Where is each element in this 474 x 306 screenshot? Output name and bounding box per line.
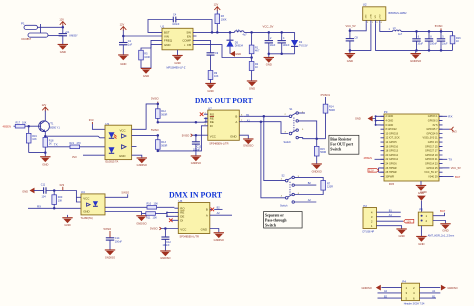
capacitor C14 [106, 237, 123, 249]
power port 12V at VIN [120, 22, 127, 30]
power port VCC_5V input [346, 24, 356, 31]
svg-text:GNDISO: GNDISO [137, 163, 147, 167]
wire SW output rail [197, 31, 235, 33]
svg-text:Pass-through: Pass-through [265, 219, 287, 223]
svg-text:GND: GND [418, 242, 424, 246]
wire gnd port to C11 [34, 190, 44, 192]
svg-text:10K: 10K [22, 121, 27, 124]
svg-text:GND: GND [164, 43, 170, 47]
svg-text:GNDISO: GNDISO [160, 256, 170, 260]
resistor R10 series RO [147, 203, 159, 209]
capacitor C13 bypass [192, 135, 202, 155]
wire RX line to opto U4 [28, 207, 81, 209]
pin numbers U2 [367, 22, 383, 24]
wire P5 bottom to gnd [420, 226, 422, 236]
svg-text:5VISO: 5VISO [435, 24, 443, 28]
svg-text:GNDISO: GNDISO [243, 144, 253, 148]
connector P3 GPIO header body [384, 110, 439, 186]
node base divider [27, 125, 30, 128]
svg-text:1K: 1K [456, 40, 459, 43]
svg-text:GND: GND [119, 154, 125, 158]
wire bias mid rail [317, 138, 326, 140]
connector P5 battery header body [418, 208, 454, 238]
svg-text:470: 470 [77, 142, 82, 145]
capacitor C17 [437, 31, 448, 50]
svg-text:Bias Resistor: Bias Resistor [330, 138, 352, 142]
wire S2 throw4 with label A2 [294, 201, 316, 203]
svg-text:S8050 Y1: S8050 Y1 [49, 127, 61, 130]
svg-text:10K: 10K [154, 203, 159, 206]
svg-text:DC0867: DC0867 [22, 37, 32, 41]
resistor R15 bias pulldown [314, 139, 326, 164]
wire P5 pin1 to BAT [433, 213, 445, 216]
ground port GND at C11 [22, 188, 34, 194]
svg-text:GPIO17 15: GPIO17 15 [425, 145, 438, 148]
ground GNDISO right of U7 [243, 139, 253, 148]
svg-text:26 HPWR: 26 HPWR [386, 167, 397, 170]
pin number 1 8 texts U7 [205, 112, 244, 126]
svg-text:For OUT port: For OUT port [330, 143, 354, 147]
wire 5VISO rail [401, 30, 453, 32]
svg-text:5VISO: 5VISO [182, 133, 190, 137]
svg-text:VCC: VCC [83, 197, 89, 201]
svg-text:Switch: Switch [265, 224, 277, 228]
svg-text:DMX OUT PORT: DMX OUT PORT [195, 96, 253, 105]
ground below R5 [141, 68, 151, 78]
op-amp U1 buck regulator MP1584 body [161, 24, 194, 69]
wire U1 GND pin down [141, 45, 159, 68]
ground port GND above P5 [417, 190, 427, 201]
svg-text:Switch: Switch [280, 205, 288, 208]
pin name texts P3 left column [386, 115, 401, 178]
svg-text:10K: 10K [153, 217, 158, 220]
no-connect X at U6 B [211, 208, 215, 212]
wire gnd to P5 top [420, 201, 422, 213]
svg-text:GNDISO: GNDISO [410, 59, 422, 63]
svg-text:GND: GND [398, 234, 404, 238]
svg-text:24 GPIO6: 24 GPIO6 [386, 163, 398, 166]
svg-text:2 GND: 2 GND [386, 115, 394, 118]
pin stub opto out3 [132, 146, 137, 148]
svg-text:-VO: -VO [375, 15, 377, 19]
capacitor C15 [412, 31, 423, 50]
wire P1 pin2 to gnd node [48, 35, 63, 37]
svg-text:GND: GND [83, 209, 89, 213]
wire U7 RE/DE tie [205, 118, 207, 122]
ground GNDISO below [410, 50, 422, 62]
op-amp U7 RS485 driver body [208, 107, 240, 146]
wire P4 row3 left with label B2 [378, 297, 402, 299]
svg-text:12V: 12V [406, 220, 411, 224]
svg-text:GPIO25 7: GPIO25 7 [426, 128, 438, 131]
ground port GND left of P3 [355, 116, 373, 122]
svg-text:DI: DI [210, 124, 213, 128]
svg-text:GND: GND [249, 87, 255, 91]
svg-text:RX: RX [448, 114, 452, 118]
svg-text:5VISO: 5VISO [104, 227, 112, 231]
svg-text:COMP: COMP [182, 38, 191, 42]
svg-text:VT1: VT1 [49, 122, 54, 125]
ground below C8 [345, 54, 355, 63]
svg-text:10K: 10K [58, 200, 63, 203]
svg-text:120R: 120R [327, 186, 333, 189]
wire 3V3 to opto pin4 [83, 154, 105, 156]
svg-text:10uF: 10uF [417, 42, 423, 45]
svg-text:R10: R10 [147, 203, 152, 206]
svg-text:EL0815 TA: EL0815 TA [106, 160, 119, 164]
resistor R17 base series [15, 121, 26, 128]
svg-text:GPIO4 25: GPIO4 25 [426, 167, 438, 170]
connector P2 DTU38 body [363, 204, 377, 234]
wire U6 RE/DE tie [167, 212, 174, 216]
wire collector up [44, 111, 46, 121]
svg-text:5VISO: 5VISO [122, 191, 130, 195]
diode D2 TVS [291, 32, 308, 53]
wire 12V to VIN rail [122, 30, 124, 42]
wire P4 row3 right with label B1 [420, 297, 437, 299]
capacitor C9 comp network [197, 40, 219, 55]
svg-text:U4: U4 [81, 190, 85, 194]
svg-text:A: A [206, 213, 208, 217]
capacitor C11 [41, 183, 46, 198]
svg-text:DNS34: DNS34 [235, 45, 244, 48]
ground GNDISO at U4 out low [136, 216, 146, 226]
svg-text:GND: GND [64, 223, 70, 227]
wire P4 row1 left [381, 287, 401, 289]
svg-text:GND: GND [174, 61, 180, 65]
svg-text:100nF: 100nF [430, 42, 438, 45]
wire P3 TX row right [439, 158, 447, 160]
svg-text:B: B [235, 114, 237, 118]
svg-text:AMT_HDR_2x1_2.5mm: AMT_HDR_2x1_2.5mm [428, 235, 455, 238]
power port 12V [59, 18, 65, 26]
svg-text:GND: GND [207, 89, 213, 93]
svg-text:12V: 12V [59, 18, 64, 22]
svg-text:GPIO27 17: GPIO27 17 [425, 150, 438, 153]
svg-text:12V: 12V [369, 169, 374, 173]
wire 485EN to base [14, 125, 16, 127]
ground below transistor [40, 153, 50, 167]
svg-text:100nF: 100nF [172, 23, 180, 26]
ground below R2 [247, 81, 257, 91]
power port 12V boxed at P2 [404, 219, 414, 223]
wire opto out2 to pullup2 node [132, 134, 158, 136]
wire emitter down to R18 [44, 132, 46, 138]
wire P4 row1 right [420, 287, 441, 289]
resistor R1 feedback top [249, 32, 260, 53]
svg-text:4u7: 4u7 [398, 33, 403, 36]
resistor R3 [215, 11, 227, 33]
wire B1 to switch S1 pole1 [244, 115, 289, 117]
resistor R18 emitter [43, 138, 54, 153]
wire C11 to RX node [46, 190, 63, 192]
svg-text:1K: 1K [255, 66, 258, 69]
svg-text:VCC_5V: VCC_5V [263, 25, 274, 29]
op-amp U3 optocoupler EL0815 body [105, 122, 132, 164]
svg-text:3V3: 3V3 [72, 155, 77, 159]
svg-text:GNDISO: GNDISO [136, 221, 146, 225]
pin stubs U1 left [159, 32, 163, 44]
svg-text:GND: GND [143, 74, 149, 78]
capacitor C3 output [265, 32, 276, 53]
svg-text:12V: 12V [42, 103, 47, 107]
svg-text:V030_3V3 11: V030_3V3 11 [423, 137, 439, 140]
svg-text:RX: RX [37, 204, 41, 208]
svg-text:TX: TX [54, 143, 58, 147]
wire B1 down to S2 [264, 116, 285, 180]
svg-text:V040 29: V040 29 [428, 175, 438, 178]
transistor Q1 VT1 S8050 [39, 121, 61, 132]
svg-text:GND: GND [235, 52, 241, 56]
svg-text:12V: 12V [120, 22, 125, 26]
wire U4 out to R10 and U6 RO [105, 206, 147, 208]
svg-text:GND: GND [22, 189, 28, 193]
ground below output caps [264, 54, 274, 67]
wire output cap ground rail [269, 53, 295, 55]
svg-text:104: 104 [42, 196, 47, 199]
svg-text:3V3: 3V3 [59, 183, 64, 187]
ground below C1 [58, 44, 68, 54]
wire P3 ground bus left [372, 116, 384, 125]
wire U2 -VIN to gnd [350, 24, 371, 51]
svg-text:DMX IN PORT: DMX IN PORT [169, 191, 223, 200]
capacitor C16 [425, 31, 438, 50]
node R5 top [53, 189, 56, 192]
node SW bootstrap [211, 31, 214, 34]
wire S2 throw2 with label B2 [294, 184, 316, 186]
svg-text:SP3485EN-L/TR: SP3485EN-L/TR [209, 141, 228, 145]
pin stubs U1 right [193, 32, 197, 44]
svg-text:5VISO: 5VISO [151, 128, 159, 132]
wire P4 row2 right with label A1 [420, 292, 441, 294]
svg-text:DTU38 4P: DTU38 4P [363, 231, 375, 234]
wire 5VISO to U7 VCC pin [192, 134, 207, 136]
node emitter to opto [44, 135, 47, 138]
svg-text:100nF: 100nF [163, 244, 171, 247]
pin stub U4 left1 [77, 196, 82, 198]
switch S2 [280, 175, 300, 208]
capacitor C8 input [346, 36, 359, 53]
ground right of P5 [440, 224, 450, 233]
power port 5VISO pullup2 [151, 128, 159, 132]
svg-text:PVISO1: PVISO1 [321, 93, 331, 97]
svg-text:VCC: VCC [210, 134, 216, 138]
power port 3V3 at opto pin1 [89, 118, 94, 124]
node DI net [157, 150, 160, 153]
svg-text:MP1584EN-LF-Z: MP1584EN-LF-Z [167, 66, 186, 69]
annotation box bias resistor note [329, 135, 359, 154]
pin name texts P3 right column [423, 115, 439, 178]
svg-text:10uF: 10uF [442, 42, 448, 45]
svg-text:VCC_5V: VCC_5V [346, 24, 356, 28]
svg-text:100nF: 100nF [283, 44, 291, 47]
pin stubs P3 right all rows [439, 116, 443, 176]
svg-text:GPIO3 1: GPIO3 1 [428, 115, 438, 118]
svg-text:GND: GND [420, 190, 426, 194]
power port 3V3 at opto pin4 [72, 155, 77, 159]
no-connect X at U7 RO [200, 112, 204, 116]
power port 5VISO at U6 VCC [150, 227, 161, 231]
svg-text:U2: U2 [363, 3, 367, 7]
wire S2 throw3 to R7 bottom [294, 190, 323, 194]
wire U4 right pin1 to 5VISO [105, 194, 128, 197]
svg-text:DI: DI [180, 218, 183, 222]
svg-text:R17: R17 [16, 121, 21, 124]
wire P5 pin2 to gnd [433, 221, 446, 224]
ground GNDISO below C13 [191, 156, 201, 165]
pin stubs U6 left [171, 208, 178, 220]
svg-text:GNDISO: GNDISO [312, 170, 322, 174]
svg-text:20 GPIO12: 20 GPIO12 [386, 154, 399, 157]
svg-text:C11: C11 [41, 183, 46, 186]
annotation box separate or passthrough [264, 212, 303, 229]
inductor L2 [235, 29, 248, 37]
capacitor C4 bootstrap [172, 14, 180, 26]
svg-text:Separate or: Separate or [265, 214, 284, 218]
diode D5 SS34 [226, 32, 243, 53]
wire S1 throw2 to bias [298, 121, 316, 139]
ground port GNDISO left of P4 [362, 285, 381, 291]
svg-text:10uF: 10uF [270, 44, 276, 47]
wire P2 pin1 to gnd [377, 226, 402, 229]
svg-text:4u7: 4u7 [243, 34, 248, 37]
svg-text:GND: GND [266, 63, 272, 67]
wire 5V output rail [244, 31, 295, 33]
svg-text:GNDISO: GNDISO [447, 286, 457, 290]
ground port GNDISO right of P4 [441, 285, 458, 291]
ground GNDISO below C12 [160, 251, 170, 260]
svg-text:R21: R21 [70, 142, 75, 145]
wire P1 pin1 to node [38, 26, 63, 28]
svg-text:3V3: 3V3 [89, 118, 94, 122]
wire P3 BAT row right [439, 176, 454, 178]
wire pullup2 to U7 DI [158, 126, 204, 151]
svg-text:GND: GND [201, 228, 207, 232]
svg-text:560R: 560R [320, 151, 326, 154]
power port 3V3 right of P3 [450, 127, 458, 134]
power port 5VISO at U7 VCC [182, 133, 193, 137]
wire U2 +VO to inductor [380, 24, 393, 32]
svg-text:A: A [235, 120, 237, 124]
svg-text:KM05Y: KM05Y [70, 35, 79, 38]
svg-text:485EN: 485EN [3, 124, 12, 128]
wire P3 RX row right [439, 115, 447, 117]
inductor L3 [389, 27, 403, 36]
svg-text:Header 3X2H 7.54: Header 3X2H 7.54 [404, 303, 425, 306]
power port 5VISO [435, 24, 443, 31]
svg-text:GND: GND [230, 134, 236, 138]
resistor R7 terminator [321, 181, 333, 191]
power port 12V at collector [42, 103, 49, 111]
svg-text:FB: FB [187, 43, 191, 47]
wire VIN to U1 [123, 35, 158, 37]
svg-text:TVS.5V: TVS.5V [299, 45, 308, 48]
svg-text:GND: GND [347, 59, 353, 63]
svg-text:FREQ: FREQ [164, 38, 173, 42]
wire FB divider node [197, 45, 252, 62]
wire 12V to C1 [62, 25, 64, 33]
svg-text:B0505LS-1WR2: B0505LS-1WR2 [389, 12, 408, 15]
svg-text:GNDISO: GNDISO [191, 161, 201, 165]
ground pad pin9 wire [177, 50, 179, 55]
ground below P2 wire [396, 229, 406, 238]
wire 3V3 to opto pin1 [92, 124, 105, 129]
wire U7 GND pin to GNDISO [239, 135, 248, 138]
ground below U1 [172, 55, 182, 65]
power port 12V above R3 [214, 3, 221, 11]
resistor R16 iso load [450, 31, 461, 50]
svg-text:GND: GND [355, 117, 361, 121]
svg-text:485EN: 485EN [364, 156, 373, 160]
wire A1 to switch S1 pole2 [244, 122, 288, 134]
svg-text:560R: 560R [161, 114, 167, 117]
resistor R5 freq set [139, 40, 159, 68]
svg-text:GND: GND [60, 50, 66, 54]
ground port left-facing at D5 [230, 51, 241, 57]
svg-text:P1: P1 [21, 22, 25, 26]
wire opto GND to GNDISO [132, 155, 142, 157]
ground below C2 [118, 55, 128, 66]
svg-text:100nF: 100nF [115, 241, 123, 244]
power port 12V boxed at P3 [368, 169, 379, 173]
svg-text:14 GPIO5: 14 GPIO5 [386, 141, 398, 144]
svg-text:10 GPIO19: 10 GPIO19 [386, 132, 399, 135]
wire S1 throw4 to bias rail [298, 138, 316, 139]
wire C2 to ground [122, 45, 124, 55]
svg-text:560R: 560R [329, 109, 335, 112]
connector P1 (DC barrel jack) [21, 22, 48, 41]
svg-text:GPIO15 21: GPIO15 21 [425, 158, 438, 161]
node iso rail joints [415, 30, 418, 33]
pin stubs P3 left all rows [381, 116, 385, 176]
resistor R13 pullup [156, 135, 168, 151]
node D5 cathode [229, 31, 232, 34]
capacitor C5 output [278, 32, 291, 53]
svg-text:BAT: BAT [455, 175, 461, 179]
pin stubs U2 bottom [366, 20, 380, 23]
svg-text:TL280(TA): TL280(TA) [81, 216, 93, 220]
svg-text:18 GPIO13: 18 GPIO13 [386, 150, 399, 153]
resistor R9 comp network [208, 55, 219, 83]
node at P1/C1 junction [62, 26, 65, 29]
pin stubs U6 right [210, 209, 212, 215]
svg-text:GND: GND [442, 229, 448, 233]
no-connect X at U6 DI [169, 219, 173, 223]
wire U6 GND pin to GNDISO [210, 229, 219, 233]
svg-text:GND: GND [42, 162, 48, 166]
svg-text:100nF: 100nF [193, 148, 201, 151]
ground below P5 [416, 236, 426, 246]
svg-text:100K: 100K [144, 56, 150, 59]
svg-text:8 GPIO22: 8 GPIO22 [386, 128, 398, 131]
svg-text:VCC: VCC [120, 128, 126, 132]
svg-text:1K: 1K [49, 143, 52, 146]
svg-text:560R: 560R [161, 145, 167, 148]
node 5VISO pullup1 [157, 103, 160, 106]
resistor R12 pullup [156, 104, 168, 122]
wire BST bootstrap loop [148, 20, 212, 33]
svg-text:1uF: 1uF [128, 43, 133, 46]
svg-text:U1: U1 [161, 24, 165, 28]
ground below R9 [205, 83, 215, 93]
wire iso ground rail bottom [416, 49, 453, 51]
resistor R20 RX pullup [52, 191, 63, 209]
svg-text:-VIN: -VIN [366, 14, 368, 19]
svg-text:VCC_5V: VCC_5V [451, 166, 461, 170]
switch S1 [284, 108, 305, 144]
svg-text:Switch: Switch [330, 148, 342, 152]
wire U6 A stub [212, 214, 232, 216]
